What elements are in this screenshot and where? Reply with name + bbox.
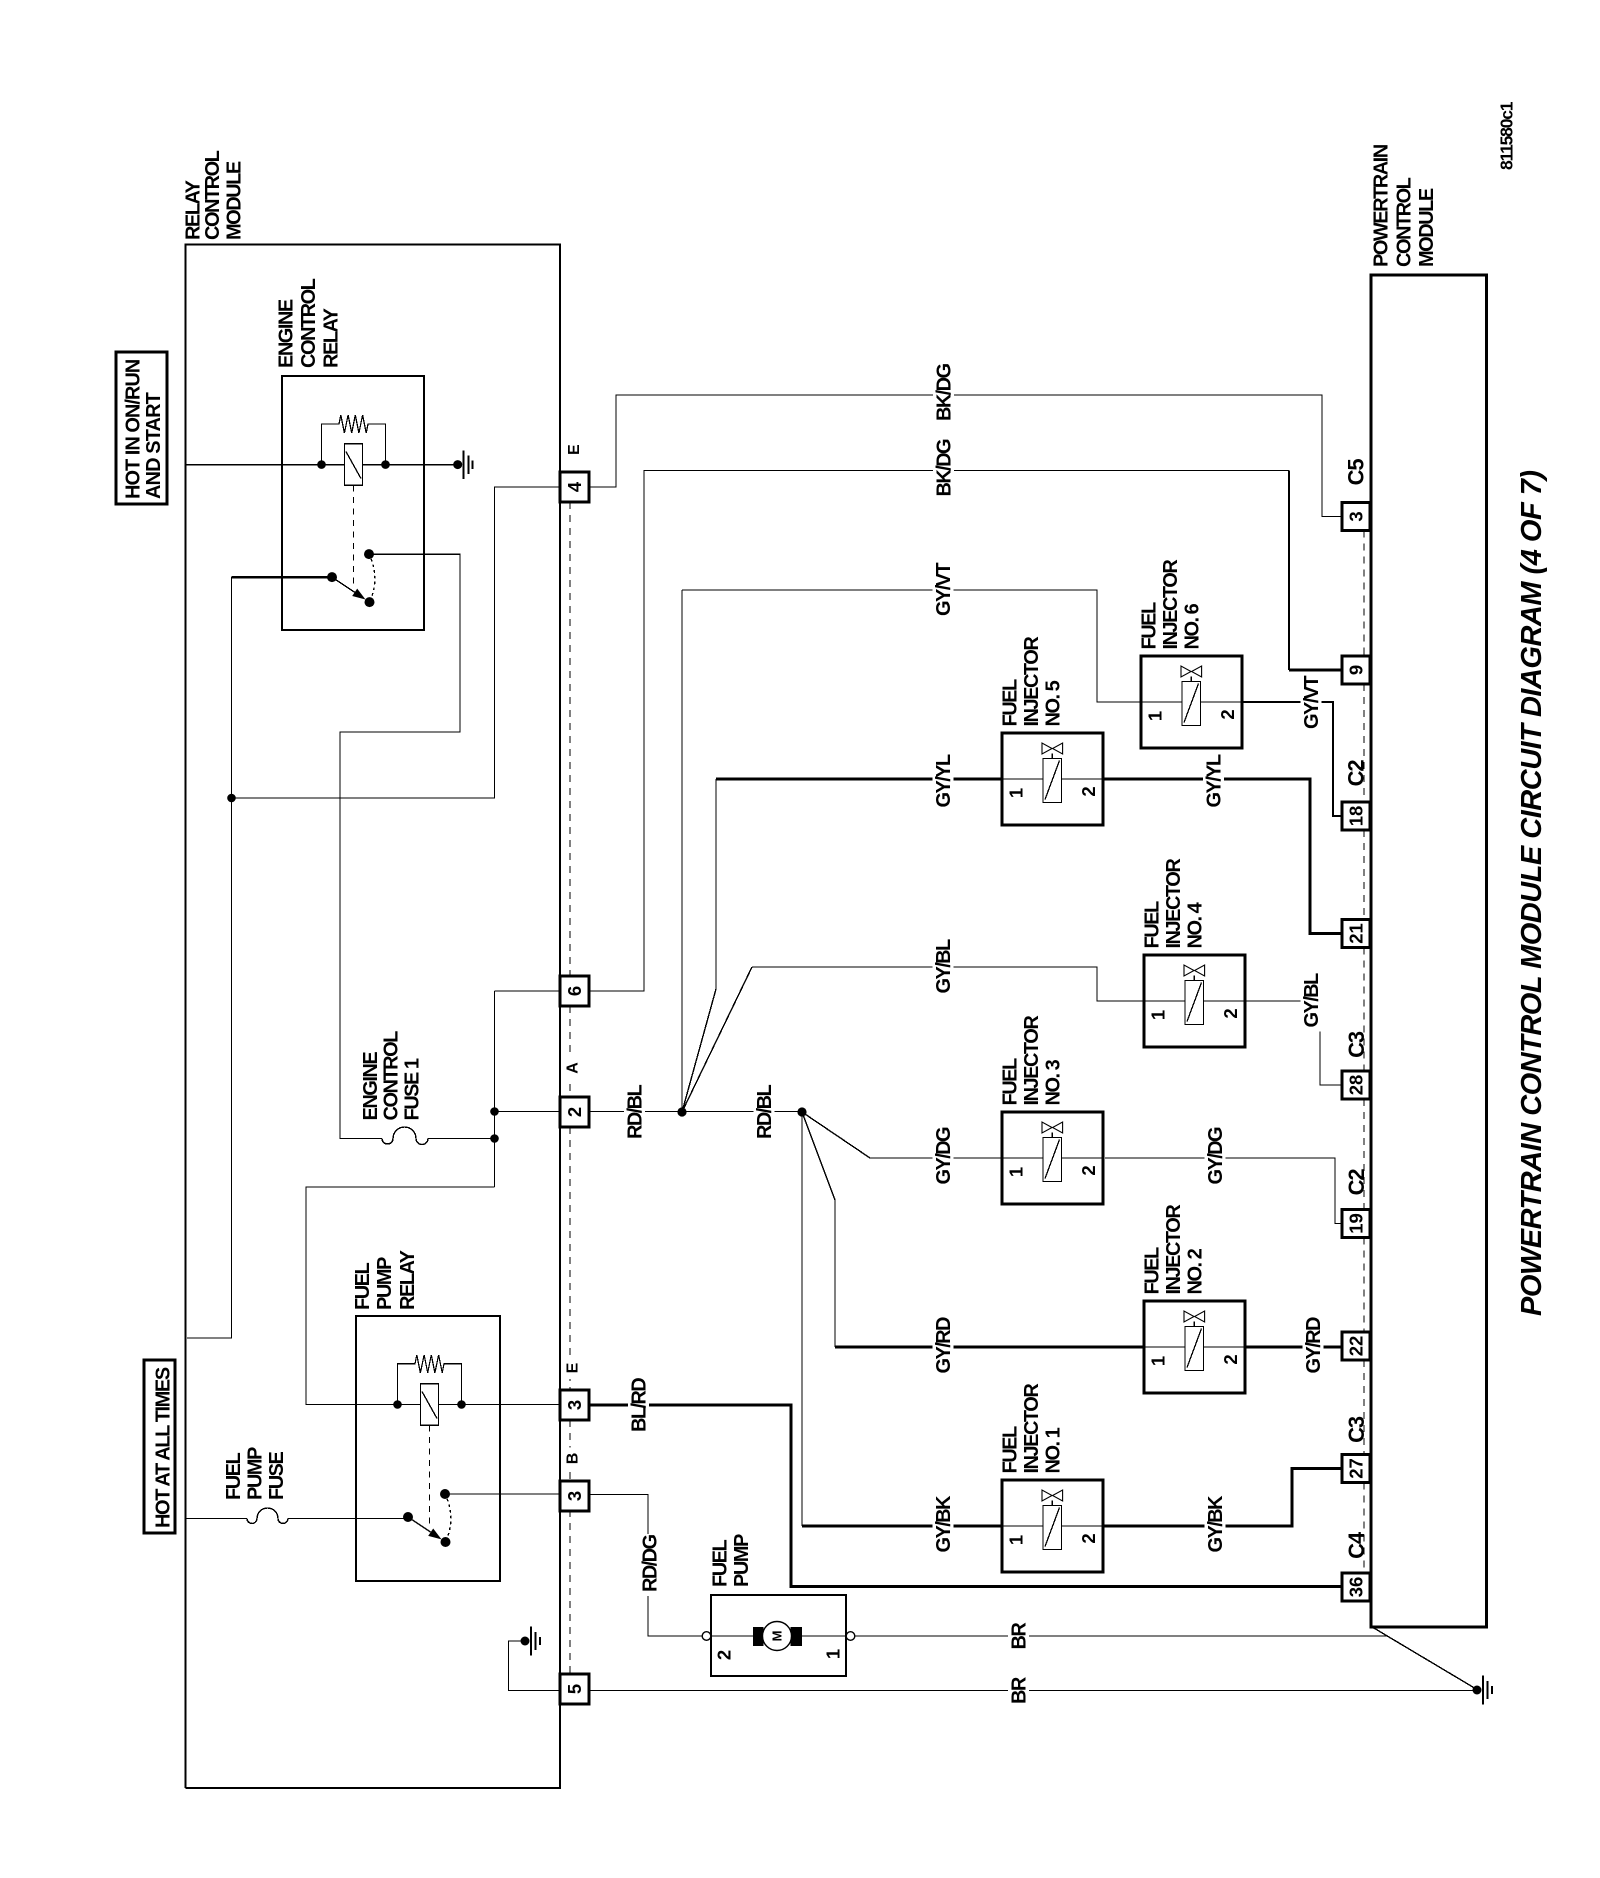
wire: GY/VT run to fuel injector 6 — [682, 590, 1141, 702]
fuel pump relay dashed actuator link — [429, 1425, 431, 1527]
fuel pump motor internal wire — [711, 1635, 846, 1637]
fuel injector NO. 6 solenoid valve rectangle — [1182, 682, 1201, 726]
fuel injector NO. 2 valve bowtie symbol — [1184, 1311, 1194, 1322]
svg-text:FUEL: FUEL — [710, 1540, 732, 1588]
wire: fuel injector 2 to PCM pin 22 (GY/RD) — [1245, 1346, 1342, 1349]
fuel injector NO. 2 box — [1144, 1301, 1245, 1393]
svg-text:3: 3 — [564, 1491, 585, 1501]
powertrain control module connector dashed edge segments — [1363, 531, 1365, 657]
RCM connector pin 3 box (B) — [560, 1481, 589, 1511]
svg-text:22: 22 — [1346, 1336, 1367, 1357]
wire: RCM pin 5 to chassis ground elbow — [509, 1641, 561, 1691]
wire: feed riser to GY/VT injector 6 wire — [681, 590, 683, 1112]
svg-text:INJECTOR: INJECTOR — [1160, 559, 1182, 650]
RCM connector pin 4 box — [560, 472, 589, 502]
svg-text:3: 3 — [564, 1400, 585, 1410]
svg-text:28: 28 — [1346, 1075, 1367, 1096]
svg-text:CONTROL: CONTROL — [202, 150, 224, 240]
svg-text:ENGINE: ENGINE — [360, 1052, 382, 1121]
RCM connector pin 3 letter B — [562, 1448, 582, 1470]
svg-text:E: E — [566, 444, 583, 455]
fuel pump relay coil resistor branch wires — [398, 1364, 416, 1405]
wire label GY/RD left — [933, 1318, 954, 1378]
svg-text:FUSE: FUSE — [266, 1452, 288, 1501]
PCM connector pin 18 box — [1342, 802, 1370, 830]
svg-text:MODULE: MODULE — [224, 161, 246, 240]
svg-text:INJECTOR: INJECTOR — [1021, 1383, 1043, 1474]
wire label GY/VT left — [933, 559, 954, 620]
fuel pump relay resistor zigzag — [415, 1355, 444, 1373]
svg-text:FUEL: FUEL — [352, 1263, 374, 1311]
wire label GY/BL right — [1301, 972, 1322, 1032]
fuel injector NO. 4 valve stem — [1193, 976, 1195, 981]
svg-text:1: 1 — [1006, 788, 1027, 798]
svg-text:RELAY: RELAY — [321, 307, 343, 368]
svg-text:CONTROL: CONTROL — [1394, 177, 1416, 267]
svg-text:2: 2 — [714, 1650, 735, 1660]
ground symbol at PCM/fuel pump return — [1473, 1686, 1482, 1695]
svg-text:HOT AT ALL TIMES: HOT AT ALL TIMES — [153, 1367, 175, 1528]
relay control module connector dashed edge segments — [569, 502, 571, 976]
svg-text:GY/BK: GY/BK — [1205, 1495, 1227, 1552]
PCM connector pin 22 box — [1342, 1332, 1370, 1360]
wire: fuel injector 6 to PCM pin 18 (GY/VT) — [1242, 702, 1342, 816]
junction dot fuse output upper — [490, 1107, 499, 1116]
svg-text:INJECTOR: INJECTOR — [1021, 636, 1043, 727]
wire label GY/YL left — [933, 752, 954, 812]
wire: fuel injector 3 to PCM pin 19 (GY/DG) — [1105, 1158, 1342, 1224]
svg-text:3: 3 — [1346, 511, 1367, 521]
svg-text:RD/BL: RD/BL — [625, 1085, 647, 1139]
svg-text:INJECTOR: INJECTOR — [1163, 1204, 1185, 1295]
svg-text:INJECTOR: INJECTOR — [1163, 858, 1185, 949]
wire label GY/YL right — [1203, 752, 1224, 812]
junction dot injector feed left — [677, 1107, 686, 1116]
engine control relay dashed actuator link — [353, 485, 355, 587]
wire: GY/DG run to fuel injector 3 — [870, 1157, 1002, 1159]
engine control relay coil terminal junction dot left — [317, 460, 326, 469]
fuel injector NO. 4 solenoid valve rectangle — [1185, 981, 1204, 1025]
fuel pump relay box — [356, 1316, 500, 1581]
RCM connector pin 6 box — [560, 976, 589, 1006]
svg-text:GY/RD: GY/RD — [933, 1317, 955, 1373]
svg-text:FUEL: FUEL — [1139, 602, 1161, 650]
svg-text:NO. 3: NO. 3 — [1043, 1059, 1065, 1105]
svg-text:GY/BK: GY/BK — [933, 1495, 955, 1552]
engine control relay switch travel dotted arc — [369, 554, 375, 602]
wire label GY/BK left — [933, 1497, 954, 1557]
fuel injector NO. 6 internal wire pin1-pin2 — [1141, 701, 1242, 703]
svg-text:NO. 6: NO. 6 — [1182, 603, 1204, 649]
junction dot injector feed right — [797, 1107, 806, 1116]
wire label BL/RD — [628, 1376, 649, 1436]
wire label GY/DG right — [1205, 1129, 1226, 1189]
engine control relay switch contact B (common) — [327, 572, 337, 582]
wire: feed diagonal to GY/BL injector 4 wire — [682, 967, 752, 1112]
fuel pump motor brushes — [753, 1627, 764, 1646]
svg-text:NO. 1: NO. 1 — [1043, 1427, 1065, 1473]
wire: RCM pin 6 to PCM pin 9 (BK/DG) — [589, 471, 1289, 992]
svg-text:2: 2 — [1078, 1165, 1099, 1175]
fuel pump motor circle with M — [763, 1622, 792, 1651]
fuel injector NO. 2 valve stem — [1193, 1322, 1195, 1327]
svg-text:PUMP: PUMP — [245, 1447, 267, 1500]
svg-text:ENGINE: ENGINE — [276, 299, 298, 368]
fuel injector NO. 5 valve bowtie symbol — [1042, 743, 1052, 754]
wire: fused-output vertical bus — [494, 991, 496, 1187]
fuel pump pin 1 terminal circle — [846, 1632, 855, 1641]
fuel injector NO. 5 valve stem — [1051, 754, 1053, 759]
svg-text:M: M — [770, 1631, 785, 1642]
fuel injector NO. 6 box — [1141, 656, 1242, 748]
wire label RD/DG — [639, 1534, 660, 1596]
PCM connector pin 28 box — [1342, 1071, 1370, 1099]
svg-text:C5: C5 — [1344, 459, 1369, 486]
fuel injector NO. 6 valve stem — [1190, 677, 1192, 682]
wire: fuel injector 5 to PCM pin 21 (GY/YL) — [1103, 779, 1342, 934]
wire: RCM pin 2 to injector feed junctions (RD/BL) — [589, 1111, 802, 1113]
wire: fused output jog to fuel pump relay coil — [306, 1187, 495, 1405]
PCM connector pin 36 box — [1342, 1573, 1370, 1601]
svg-text:GY/VT: GY/VT — [1301, 676, 1323, 729]
svg-text:1: 1 — [1148, 1356, 1169, 1366]
svg-text:PUMP: PUMP — [731, 1534, 753, 1587]
wire: RCM pin 4 to PCM pin 3 (BK/DG) — [589, 395, 1342, 517]
svg-text:BR: BR — [1009, 1622, 1031, 1650]
wire: fused output to RCM pin 2 — [495, 1111, 561, 1113]
svg-text:BK/DG: BK/DG — [934, 364, 956, 421]
svg-text:GY/DG: GY/DG — [933, 1127, 955, 1184]
svg-text:GY/BL: GY/BL — [1301, 973, 1323, 1027]
svg-text:NO. 4: NO. 4 — [1185, 901, 1207, 948]
engine control relay coil resistor branch wires — [322, 424, 340, 465]
wire: feed drop to GY/BK injector 1 wire — [801, 1112, 803, 1526]
fuel pump relay switch contact C (closed position) — [441, 1537, 451, 1547]
svg-text:E: E — [565, 1362, 582, 1373]
wire: fuel injector 1 to PCM pin 27 (GY/BK) — [1104, 1469, 1342, 1527]
RCM connector pin 4 letter E — [564, 439, 584, 461]
engine control relay box — [282, 376, 424, 630]
engine control fuse 1 symbol — [382, 1127, 428, 1145]
fuel injector NO. 2 internal wire pin1-pin2 — [1144, 1346, 1245, 1348]
svg-text:GY/VT: GY/VT — [933, 563, 955, 616]
svg-text:C2: C2 — [1344, 760, 1369, 787]
fuel injector NO. 1 valve stem — [1051, 1501, 1053, 1506]
wire: fuel injector 4 to PCM pin 28 (GY/BL) — [1245, 1001, 1342, 1085]
svg-text:FUEL: FUEL — [1142, 1247, 1164, 1295]
power source label box HOT AT ALL TIMES — [144, 1360, 175, 1533]
svg-text:2: 2 — [564, 1107, 585, 1117]
wire: engine control fuse 1 output to junction — [428, 1138, 495, 1140]
RCM connector pin 2 box — [560, 1097, 589, 1127]
wire: GY/RD run to fuel injector 2 — [835, 1346, 1144, 1349]
fuel pump fuse symbol — [247, 1508, 288, 1524]
svg-text:FUEL: FUEL — [1000, 679, 1022, 727]
fuel injector NO. 3 valve stem — [1051, 1133, 1053, 1138]
svg-text:2: 2 — [1078, 786, 1099, 796]
fuel injector NO. 4 internal wire pin1-pin2 — [1144, 1000, 1245, 1002]
svg-text:C3: C3 — [1344, 1416, 1369, 1443]
svg-text:GY/YL: GY/YL — [933, 754, 955, 807]
fuel injector NO. 6 valve bowtie symbol — [1181, 666, 1191, 677]
wire label BR upper — [1008, 1622, 1029, 1654]
PCM connector pin 27 box — [1342, 1455, 1370, 1483]
svg-text:FUEL: FUEL — [1000, 1058, 1022, 1106]
junction dot on relay-B wire — [227, 794, 236, 803]
PCM connector pin 9 box — [1342, 656, 1370, 684]
svg-text:9: 9 — [1346, 665, 1367, 675]
fuel injector NO. 1 box — [1002, 1480, 1103, 1572]
wire: fused output to RCM pin 6 — [495, 990, 561, 992]
fuel pump relay switch contact A (output) — [440, 1489, 450, 1499]
powertrain control module box outline — [1371, 275, 1487, 1627]
svg-text:27: 27 — [1346, 1458, 1367, 1479]
svg-text:6: 6 — [564, 986, 585, 996]
wire: GY/YL run to fuel injector 5 — [716, 778, 1002, 781]
fuel injector NO. 5 internal wire pin1-pin2 — [1002, 778, 1103, 780]
wire label RD/BL left — [624, 1083, 645, 1143]
engine control relay coil terminal junction dot right — [381, 460, 390, 469]
svg-text:2: 2 — [1220, 1354, 1241, 1364]
wire: battery feed to engine control relay coil (HOT IN ON/RUN) — [186, 464, 458, 466]
svg-text:811580c1: 811580c1 — [1497, 101, 1517, 170]
fuel injector NO. 1 solenoid valve rectangle — [1043, 1506, 1062, 1550]
wire label GY/VT right — [1301, 672, 1322, 733]
svg-text:2: 2 — [1217, 709, 1238, 719]
wire: RCM pin 3 E to PCM pin 36 (BL/RD) — [589, 1405, 1342, 1587]
wire: relay-B node to RCM pin 4 — [232, 487, 561, 798]
svg-text:21: 21 — [1346, 923, 1367, 944]
wire: feed diagonal+drop to GY/RD injector 2 wire — [802, 1112, 835, 1347]
fuel injector NO. 4 box — [1144, 955, 1245, 1047]
fuel pump relay switch travel dotted arc — [445, 1494, 451, 1542]
RCM connector pin 2 letter A — [562, 1057, 582, 1079]
svg-text:CONTROL: CONTROL — [298, 278, 320, 368]
fuel pump relay switch contact B (common) — [403, 1512, 413, 1522]
svg-text:POWERTRAIN CONTROL MODULE CIRC: POWERTRAIN CONTROL MODULE CIRCUIT DIAGRA… — [1516, 470, 1548, 1316]
fuel injector NO. 1 valve bowtie symbol — [1042, 1490, 1052, 1501]
wire: HOT AT ALL TIMES through fuel pump fuse to relay contact B — [186, 1518, 247, 1520]
PCM connector pin 21 box — [1342, 920, 1370, 948]
svg-text:36: 36 — [1346, 1577, 1367, 1598]
engine control relay switch contact C (closed position) — [365, 597, 375, 607]
fuel pump relay coil (solenoid) rectangle with diagonal — [421, 1384, 439, 1426]
wire label GY/BL left — [933, 938, 954, 998]
svg-text:RD/DG: RD/DG — [640, 1535, 662, 1592]
RCM connector pin 3 box (E) — [560, 1390, 589, 1420]
svg-text:GY/RD: GY/RD — [1303, 1317, 1325, 1373]
svg-text:BK/DG: BK/DG — [934, 439, 956, 496]
svg-text:MODULE: MODULE — [1416, 188, 1438, 267]
wire: engine control relay contact A to engine control fuse 1 — [340, 554, 460, 1138]
svg-text:GY/YL: GY/YL — [1204, 754, 1226, 807]
wire: GY/BK run to fuel injector 1 — [802, 1525, 1002, 1528]
engine control relay switch blade arrow — [332, 577, 355, 592]
svg-text:GY/DG: GY/DG — [1205, 1127, 1227, 1184]
fuel injector NO. 3 box — [1002, 1112, 1103, 1204]
svg-text:BL/RD: BL/RD — [629, 1378, 651, 1432]
svg-text:1: 1 — [1148, 1010, 1169, 1020]
fuel pump pin 2 terminal circle — [702, 1632, 711, 1641]
svg-text:FUSE 1: FUSE 1 — [402, 1058, 424, 1120]
svg-text:1: 1 — [1006, 1167, 1027, 1177]
fuel injector NO. 5 box — [1002, 733, 1103, 825]
svg-text:1: 1 — [1006, 1535, 1027, 1545]
wire: engine control relay contact B common to HOT AT ALL TIMES rail — [232, 576, 333, 578]
svg-text:2: 2 — [1078, 1533, 1099, 1543]
wire: fuel pump relay contact A to RCM pin 3 B — [445, 1493, 560, 1495]
power source label box HOT IN ON/RUN AND START — [116, 352, 167, 504]
wire: RCM pin 3 B to fuel pump pin 2 (RD/DG) — [589, 1495, 702, 1637]
svg-text:2: 2 — [1220, 1008, 1241, 1018]
ground symbol at engine control relay coil — [453, 460, 462, 469]
fuel pump relay switch blade arrow — [408, 1517, 431, 1532]
svg-text:A: A — [565, 1062, 582, 1074]
PCM connector pin 19 box — [1342, 1210, 1370, 1238]
wire label BK/DG lower — [933, 439, 954, 501]
fuel pump relay coil terminal junction dot left — [393, 1400, 402, 1409]
svg-text:HOT IN ON/RUN: HOT IN ON/RUN — [123, 359, 145, 499]
wire: RCM pin 5 to ground point (BR) — [589, 1690, 1473, 1692]
svg-text:FUEL: FUEL — [1000, 1426, 1022, 1474]
svg-text:B: B — [565, 1453, 582, 1465]
fuel injector NO. 3 solenoid valve rectangle — [1043, 1138, 1062, 1182]
svg-text:18: 18 — [1346, 806, 1367, 827]
svg-text:RELAY: RELAY — [397, 1249, 419, 1310]
wire label GY/RD right — [1303, 1318, 1324, 1378]
wire label BR lower — [1008, 1676, 1029, 1708]
svg-text:INJECTOR: INJECTOR — [1021, 1015, 1043, 1106]
svg-text:1: 1 — [1145, 711, 1166, 721]
svg-text:5: 5 — [564, 1684, 585, 1694]
svg-text:RD/BL: RD/BL — [754, 1085, 776, 1139]
fuel injector NO. 2 solenoid valve rectangle — [1185, 1327, 1204, 1371]
wire: fuel pump relay coil through-wire — [306, 1404, 560, 1406]
svg-text:NO. 5: NO. 5 — [1043, 680, 1065, 726]
wire label RD/BL right — [754, 1083, 775, 1143]
svg-text:CONTROL: CONTROL — [381, 1031, 403, 1121]
svg-text:GY/BL: GY/BL — [933, 939, 955, 993]
wire: feed diagonal+riser to GY/YL injector 5 wire — [682, 779, 716, 1112]
wire label GY/BK right — [1205, 1497, 1226, 1557]
svg-text:NO. 2: NO. 2 — [1185, 1248, 1207, 1294]
wire: GY/BL run to fuel injector 4 — [752, 967, 1144, 1001]
svg-text:1: 1 — [823, 1649, 844, 1659]
fuel injector NO. 4 valve bowtie symbol — [1184, 965, 1194, 976]
svg-text:AND START: AND START — [143, 392, 165, 499]
relay control module box outline — [186, 245, 561, 1789]
svg-text:FUEL: FUEL — [223, 1453, 245, 1501]
wire label BK/DG upper — [933, 363, 954, 425]
svg-text:19: 19 — [1346, 1213, 1367, 1234]
svg-text:C4: C4 — [1344, 1531, 1369, 1559]
engine control relay switch contact A (output) — [364, 549, 374, 559]
RCM connector pin 5 box — [560, 1674, 589, 1704]
ground symbol at RCM pin 5 — [521, 1637, 530, 1646]
svg-text:C2: C2 — [1344, 1169, 1369, 1196]
PCM connector pin 3 box — [1342, 503, 1370, 531]
fuel injector NO. 1 internal wire pin1-pin2 — [1002, 1525, 1103, 1527]
RCM connector pin 3 letter E — [562, 1357, 582, 1379]
wire: feed diagonal to GY/DG injector 3 wire — [802, 1112, 870, 1158]
svg-text:FUEL: FUEL — [1142, 901, 1164, 949]
svg-text:BR: BR — [1009, 1676, 1031, 1704]
fuel pump box — [711, 1595, 846, 1676]
fuel pump relay coil terminal junction dot right — [457, 1400, 466, 1409]
junction dot fuse output lower — [490, 1134, 499, 1143]
fuel injector NO. 3 internal wire pin1-pin2 — [1002, 1157, 1103, 1159]
svg-text:POWERTRAIN: POWERTRAIN — [1371, 144, 1393, 267]
svg-text:PUMP: PUMP — [374, 1257, 396, 1310]
engine control relay coil (solenoid) rectangle with diagonal — [345, 444, 363, 486]
engine control relay resistor zigzag — [339, 415, 368, 433]
wire: fuel pump pin 1 to PCM ground diagonal (BR) — [855, 1635, 1388, 1637]
svg-text:4: 4 — [564, 481, 585, 492]
fuel injector NO. 5 solenoid valve rectangle — [1043, 759, 1062, 803]
fuel injector NO. 3 valve bowtie symbol — [1042, 1122, 1052, 1133]
wire label GY/DG left — [933, 1129, 954, 1189]
svg-text:C3: C3 — [1344, 1031, 1369, 1058]
